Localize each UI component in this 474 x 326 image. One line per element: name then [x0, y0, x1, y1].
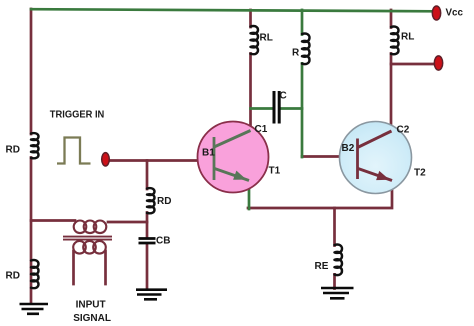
svg-text:RE: RE: [315, 261, 329, 272]
svg-text:SIGNAL: SIGNAL: [73, 313, 111, 324]
svg-text:B2: B2: [342, 143, 355, 154]
svg-text:RL: RL: [401, 32, 414, 43]
svg-text:CB: CB: [156, 236, 170, 247]
svg-text:B1: B1: [202, 148, 215, 159]
svg-text:RD: RD: [6, 145, 20, 156]
svg-text:T1: T1: [269, 166, 281, 177]
svg-text:C2: C2: [397, 125, 410, 136]
svg-text:C1: C1: [255, 124, 268, 135]
svg-text:INPUT: INPUT: [76, 300, 106, 311]
svg-text:RL: RL: [260, 33, 273, 44]
svg-text:Vcc: Vcc: [446, 8, 464, 19]
svg-text:R: R: [292, 48, 300, 59]
svg-text:TRIGGER IN: TRIGGER IN: [50, 110, 105, 121]
svg-text:RD: RD: [157, 196, 171, 207]
svg-text:C: C: [280, 91, 287, 102]
svg-text:RD: RD: [6, 271, 20, 282]
svg-text:T2: T2: [414, 168, 426, 179]
